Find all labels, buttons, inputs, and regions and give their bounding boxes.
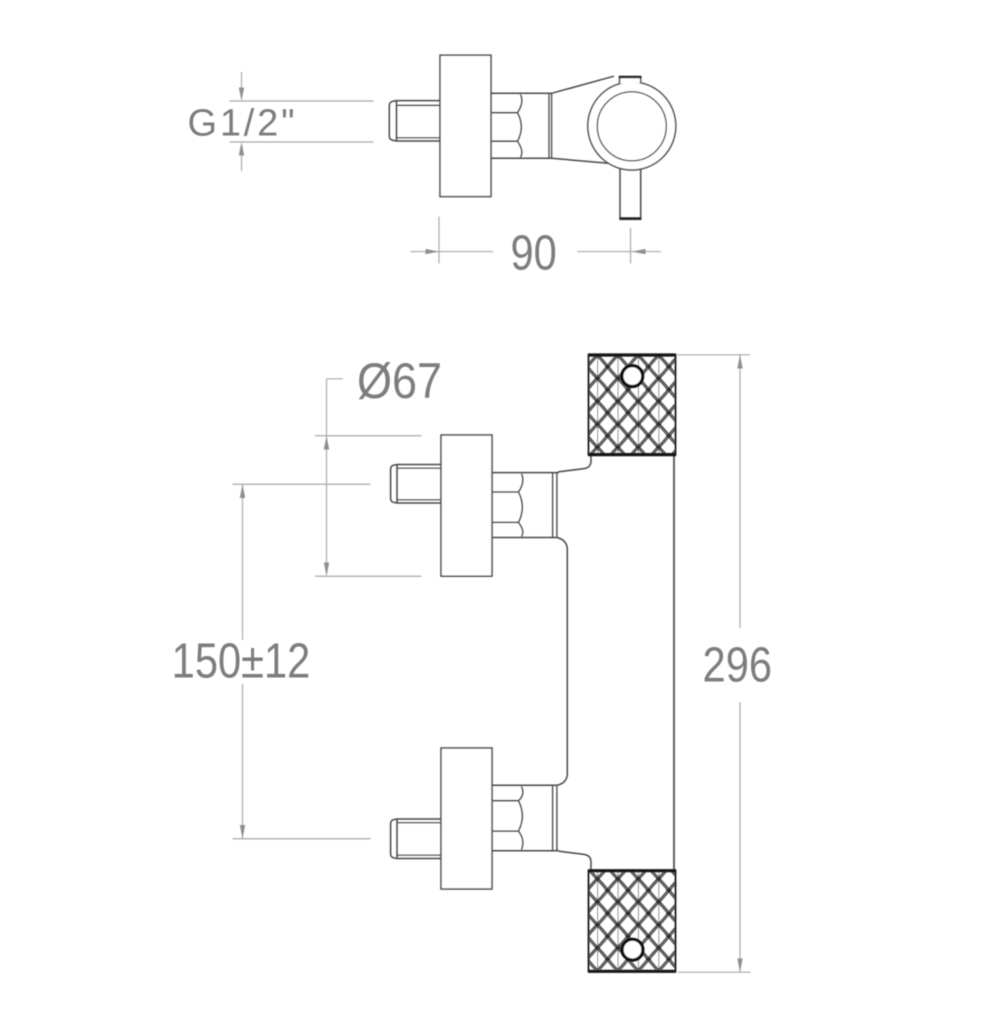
- svg-text:G1/2": G1/2": [188, 102, 298, 144]
- svg-text:90: 90: [510, 225, 556, 280]
- svg-text:Ø67: Ø67: [357, 354, 442, 410]
- svg-text:296: 296: [703, 637, 772, 692]
- svg-text:150±12: 150±12: [172, 633, 311, 688]
